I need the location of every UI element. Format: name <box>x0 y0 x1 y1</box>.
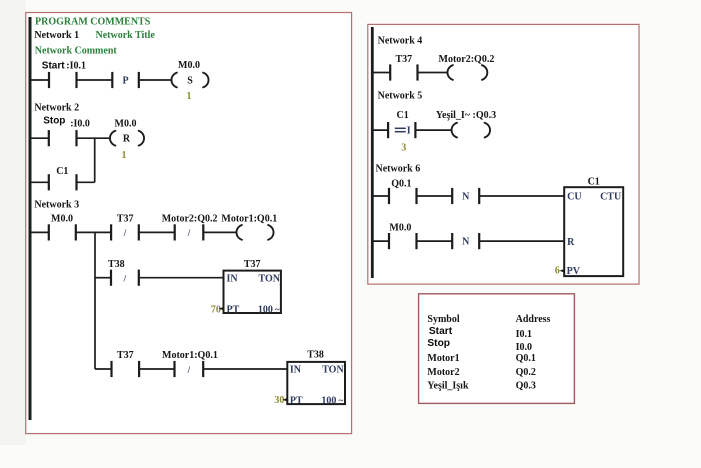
wire M0.0 to N contact <box>417 240 453 242</box>
svg-text:Address: Address <box>516 314 551 325</box>
contact M0.0 <box>49 224 76 240</box>
coil Motor1:Q0.1 <box>236 225 273 240</box>
wire M0.0 to T37 contact <box>76 231 111 233</box>
contact Stop:I0.0 <box>49 130 77 146</box>
label Q0.1 rung6 <box>391 179 411 190</box>
svg-text:R: R <box>123 134 131 145</box>
svg-text::I0.0: :I0.0 <box>70 118 90 129</box>
svg-text:Q0.3: Q0.3 <box>516 381 536 392</box>
coil Yesil_Isik:Q0.3 <box>452 123 490 138</box>
branch vertical net3 <box>94 232 96 369</box>
label C1 branch contact <box>56 166 68 177</box>
label C1 rung5 <box>397 110 409 121</box>
svg-text:Motor1: Motor1 <box>427 353 459 364</box>
label Start :I0.1 <box>42 60 86 71</box>
contact T38 NC <box>111 270 139 286</box>
wire rail to Start contact <box>30 79 49 81</box>
wire rail to M0.0 contact <box>30 231 49 233</box>
right power rail <box>371 27 374 278</box>
svg-text:30: 30 <box>274 395 284 406</box>
svg-text:Stop: Stop <box>427 338 450 349</box>
wire branch to T38 contact <box>95 277 111 279</box>
operand 1 of S coil <box>187 91 192 102</box>
svg-text:PT: PT <box>227 305 240 316</box>
right network panel frame <box>368 24 639 284</box>
label row rung3 <box>51 213 277 224</box>
label T37 timer box <box>244 259 261 270</box>
svg-text:N: N <box>462 237 470 248</box>
wire branch elbow to T37 contact <box>95 368 112 370</box>
operand 70 of PT <box>211 304 224 315</box>
edge contact P <box>112 72 139 88</box>
contact T37 <box>112 361 140 377</box>
svg-text:Motor2:Q0.2: Motor2:Q0.2 <box>162 213 218 224</box>
svg-text:Motor2: Motor2 <box>427 367 459 378</box>
svg-text:CTU: CTU <box>600 191 621 202</box>
svg-text:3: 3 <box>401 143 406 154</box>
label Yesil coil <box>436 110 496 121</box>
svg-text:Motor1:Q0.1: Motor1:Q0.1 <box>221 213 277 224</box>
wire P to coil <box>139 79 172 81</box>
label Motor2:Q0.2 rung4 <box>439 54 495 65</box>
svg-text:/: / <box>123 274 127 284</box>
symbol row Yesil_Isik <box>427 381 535 392</box>
label row subrung2 <box>117 350 218 361</box>
svg-text:T37: T37 <box>117 350 134 361</box>
wire N to counter R <box>479 240 565 242</box>
svg-text:~: ~ <box>339 396 344 406</box>
wire N to counter CU <box>479 195 565 197</box>
network 2 header <box>34 103 79 114</box>
svg-text:M0.0: M0.0 <box>51 213 73 224</box>
contact T37 NC <box>111 224 139 240</box>
symbol table header <box>427 314 550 325</box>
edge contact N lower <box>452 233 479 249</box>
svg-text:PT: PT <box>290 396 303 407</box>
svg-text:M0.0: M0.0 <box>178 60 200 71</box>
wire Stop to R coil <box>77 137 110 139</box>
label M0.0 (rung2 coil) <box>115 118 137 129</box>
svg-text:R: R <box>567 237 575 248</box>
svg-text:Network 1: Network 1 <box>34 30 79 41</box>
contact T37 net4 <box>390 64 417 80</box>
wire T38 to timer T37 <box>139 277 225 279</box>
svg-text:N: N <box>462 191 470 202</box>
svg-text:Network 6: Network 6 <box>376 163 421 174</box>
svg-text:Network 2: Network 2 <box>34 103 79 114</box>
wire T37 to Motor1 contact <box>139 368 174 370</box>
svg-text:Start: Start <box>42 60 65 71</box>
contact Motor1:Q0.1 NC <box>175 361 204 377</box>
left network panel frame <box>26 13 352 434</box>
symbol row Motor1 <box>427 353 535 364</box>
svg-text:Start: Start <box>429 326 453 337</box>
network 5 header <box>378 90 423 101</box>
svg-text:P: P <box>122 75 128 86</box>
svg-text:C1: C1 <box>588 177 600 188</box>
network 3 header <box>34 200 79 211</box>
compare contact C1 ==I <box>388 122 415 138</box>
svg-text:1: 1 <box>122 150 127 161</box>
wire Motor2 to coil <box>203 231 236 233</box>
svg-text:T37: T37 <box>396 54 413 65</box>
svg-text:TON: TON <box>259 273 281 284</box>
svg-text:I: I <box>407 126 411 137</box>
wire compare to Yesil coil <box>415 129 451 131</box>
svg-text:C1: C1 <box>397 110 409 121</box>
svg-text:/: / <box>187 365 191 375</box>
network 1 header <box>34 30 155 41</box>
network 6 header <box>376 163 421 174</box>
contact Q0.1 <box>389 188 417 204</box>
coil M0.0 Set <box>171 73 208 88</box>
wire rail to compare contact <box>372 129 388 131</box>
svg-text:1: 1 <box>187 91 192 102</box>
svg-text:Network 5: Network 5 <box>378 90 423 101</box>
operand 6 of PV <box>555 266 565 277</box>
svg-text:Yeşil_I~ :Q0.3: Yeşil_I~ :Q0.3 <box>436 110 496 121</box>
label T37 rung4 <box>396 54 413 65</box>
label Stop :I0.0 <box>43 115 90 129</box>
svg-text:Stop: Stop <box>43 115 65 126</box>
svg-text:~: ~ <box>275 305 280 315</box>
svg-text:CU: CU <box>567 191 581 202</box>
svg-text:Network Comment: Network Comment <box>35 46 118 57</box>
svg-text:Symbol: Symbol <box>427 314 459 325</box>
svg-text:6: 6 <box>555 266 560 277</box>
label C1 counter box <box>588 177 600 188</box>
wire rail to Q0.1 contact <box>372 195 389 197</box>
svg-text:Motor1:Q0.1: Motor1:Q0.1 <box>162 350 218 361</box>
left power rail <box>29 17 32 420</box>
symbol table frame <box>419 294 575 404</box>
symbol row Start <box>429 326 532 340</box>
network comment <box>35 46 118 57</box>
svg-text:M0.0: M0.0 <box>389 223 411 234</box>
svg-text:IN: IN <box>227 273 239 284</box>
label M0.0 rung6b <box>389 223 411 234</box>
wire rail to Stop contact <box>30 137 49 139</box>
svg-text:M0.0: M0.0 <box>115 118 137 129</box>
svg-text:Network Title: Network Title <box>96 30 156 41</box>
wire rail to C1 contact <box>30 181 49 183</box>
network 4 header <box>378 35 423 46</box>
svg-text:T37: T37 <box>244 259 261 270</box>
coil Motor2:Q0.2 <box>447 65 487 80</box>
wire Q0.1 to N contact <box>417 195 453 197</box>
svg-text:TON: TON <box>322 365 344 376</box>
operand 1 of R coil <box>122 150 127 161</box>
symbol row Stop <box>427 338 532 353</box>
svg-text:Network 4: Network 4 <box>378 35 423 46</box>
svg-text:T38: T38 <box>307 350 324 361</box>
contact Start:I0.1 <box>49 72 77 88</box>
svg-text:T37: T37 <box>117 213 134 224</box>
svg-text:100: 100 <box>258 305 273 316</box>
wire rail to M0.0 contact <box>372 240 389 242</box>
wire C1 to branch <box>77 181 95 183</box>
symbol row Motor2 <box>427 367 535 378</box>
timer box T37 TON <box>224 271 281 316</box>
svg-text:PROGRAM COMMENTS: PROGRAM COMMENTS <box>35 16 151 27</box>
contact M0.0 net6 <box>389 233 417 249</box>
label M0.0 (rung1 coil) <box>178 60 200 71</box>
svg-text:70: 70 <box>211 304 221 315</box>
svg-text:Motor2:Q0.2: Motor2:Q0.2 <box>439 54 495 65</box>
operand 3 of compare <box>401 143 406 154</box>
operand 30 of PT <box>274 395 288 406</box>
wire rail to T37 contact <box>372 72 390 74</box>
svg-text:Network 3: Network 3 <box>34 200 79 211</box>
edge contact N upper <box>452 188 479 204</box>
wire Motor1 to timer T38 <box>203 368 288 370</box>
wire T37 to Motor2 contact <box>139 231 175 233</box>
svg-text:S: S <box>187 75 193 86</box>
counter box C1 CTU <box>564 187 623 277</box>
label T38 timer box <box>307 350 324 361</box>
svg-text:I0.0: I0.0 <box>516 342 532 353</box>
svg-text:I0.1: I0.1 <box>516 329 532 340</box>
svg-text:100: 100 <box>321 396 336 407</box>
timer box T38 TON <box>287 362 345 407</box>
svg-text:/: / <box>187 228 191 238</box>
svg-text:C1: C1 <box>56 166 68 177</box>
svg-text:PV: PV <box>567 266 581 277</box>
svg-text::I0.1: :I0.1 <box>66 60 86 71</box>
label T38 contact <box>108 259 125 270</box>
program comments header <box>35 16 151 27</box>
svg-text:/: / <box>123 228 127 238</box>
coil M0.0 Reset <box>110 131 144 146</box>
svg-text:IN: IN <box>290 365 302 376</box>
contact Motor2:Q0.2 NC <box>175 224 204 240</box>
contact C1 <box>49 174 77 190</box>
wire T37 to Motor2 coil <box>418 72 448 74</box>
svg-text:Q0.1: Q0.1 <box>391 179 411 190</box>
svg-text:T38: T38 <box>108 259 125 270</box>
svg-text:Q0.2: Q0.2 <box>516 367 536 378</box>
wire Start to P contact <box>77 79 113 81</box>
branch vertical net2 <box>94 138 96 182</box>
svg-text:Yeşil_Işık: Yeşil_Işık <box>427 381 469 392</box>
svg-text:Q0.1: Q0.1 <box>516 353 536 364</box>
